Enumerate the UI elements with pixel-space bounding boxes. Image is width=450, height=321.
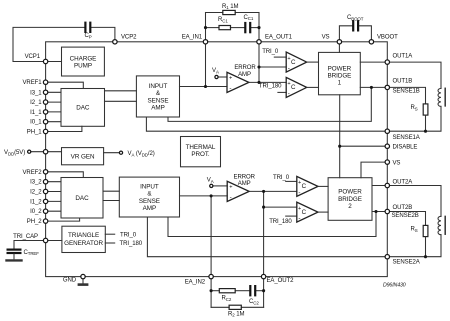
- svg-text:POWER: POWER: [338, 189, 362, 196]
- svg-text:C: C: [302, 209, 307, 216]
- svg-text:OUT1B: OUT1B: [393, 78, 413, 84]
- svg-text:VBOOT: VBOOT: [377, 35, 398, 41]
- wire EA_OUT1 vertical down: [258, 42, 260, 83]
- wire comp1a to power bridge 1: [307, 61, 319, 63]
- inductor load 2: [438, 216, 441, 234]
- svg-text:SENSE2B: SENSE2B: [392, 213, 419, 219]
- svg-text:OUT2B: OUT2B: [393, 205, 413, 211]
- svg-text:VS: VS: [322, 35, 330, 41]
- wire PH_1 to DAC1: [46, 126, 82, 131]
- svg-text:EA_IN2: EA_IN2: [185, 279, 206, 285]
- svg-text:PH_2: PH_2: [27, 219, 42, 225]
- svg-text:2: 2: [348, 203, 352, 210]
- wire TRI_180 stub comparator 1b: [278, 91, 286, 93]
- pin OUT1B: [385, 85, 389, 89]
- svg-text:ERROR: ERROR: [234, 65, 256, 71]
- wire Va1 to error amp: [217, 76, 228, 78]
- svg-text:VS: VS: [393, 160, 401, 166]
- power bridge 2 box: [328, 178, 372, 221]
- pin circles: [28, 40, 390, 279]
- svg-text:EA_OUT1: EA_OUT1: [265, 35, 293, 41]
- node OUT2B sense2b: [374, 210, 377, 213]
- pin I0_1: [43, 120, 47, 124]
- wire sense1b feedback: [168, 87, 371, 121]
- wire comp1b to power bridge 1: [307, 86, 319, 88]
- wire VR GEN to Va output: [104, 152, 120, 154]
- pin OUT2A: [385, 183, 389, 187]
- svg-text:R1 1M: R1 1M: [222, 4, 238, 10]
- wire Cp loop VCP1 to VCP2: [13, 27, 84, 61]
- wire TRI_0 stub comparator 2a: [286, 180, 297, 182]
- wire top level R1: [206, 12, 223, 14]
- charge pump box: [62, 47, 105, 76]
- pin TRI_CAP: [43, 238, 47, 242]
- svg-text:RS: RS: [411, 227, 418, 233]
- svg-text:BRIDGE: BRIDGE: [338, 196, 362, 203]
- svg-text:VCP2: VCP2: [121, 35, 137, 41]
- node EA_OUT2 error amp out: [262, 190, 265, 193]
- pin SENSE1A: [385, 129, 389, 133]
- svg-text:VDD(5V): VDD(5V): [4, 150, 25, 156]
- svg-text:-: -: [288, 65, 290, 72]
- comparator C 1b: [286, 77, 307, 97]
- svg-text:I1_2: I1_2: [30, 199, 42, 205]
- wire DISABLE: [340, 145, 388, 147]
- svg-text:+: +: [229, 76, 232, 82]
- svg-text:I2_2: I2_2: [30, 190, 42, 196]
- svg-text:INPUT: INPUT: [140, 184, 159, 191]
- node EA_OUT1 comp branch: [257, 65, 260, 68]
- wire OUT2B to Rs2: [387, 212, 425, 226]
- node EA_IN1 loop: [204, 26, 207, 29]
- wire OUT1B to Rs1: [387, 87, 425, 104]
- wire VS rail between bridges: [339, 95, 341, 178]
- wire EA_OUT2 branch to comparator 2b: [264, 206, 297, 208]
- svg-text:-: -: [298, 190, 300, 197]
- svg-text:-: -: [298, 215, 300, 222]
- comparator C 1a: [286, 52, 307, 72]
- node EA_OUT2 comp branch: [262, 206, 265, 209]
- svg-text:CTREF: CTREF: [24, 250, 40, 256]
- wire I0_1: [46, 121, 61, 123]
- pin OUT2B: [385, 209, 389, 213]
- resistor RC1: [219, 26, 231, 30]
- svg-text:VA: VA: [212, 68, 219, 74]
- wire EA_OUT2 external vertical: [263, 277, 265, 308]
- svg-text:-: -: [230, 194, 232, 201]
- inductor load 1: [438, 88, 441, 106]
- wire EA_IN2 vertical: [210, 196, 212, 277]
- svg-text:I2_1: I2_1: [30, 100, 42, 106]
- svg-text:GND: GND: [63, 277, 77, 283]
- triangle generator box: [62, 226, 105, 252]
- wire bottom level R2: [211, 306, 229, 308]
- svg-text:EA_OUT2: EA_OUT2: [267, 278, 295, 284]
- pin I2_1: [43, 100, 47, 104]
- svg-text:VREF2: VREF2: [23, 170, 43, 176]
- pin PH_1: [43, 129, 47, 133]
- wire power bridge2 to OUT2A: [372, 185, 387, 187]
- wire Rs2 bottom: [425, 237, 427, 257]
- svg-text:CBOOT: CBOOT: [347, 15, 364, 21]
- wire VREF2 to DAC2: [46, 172, 84, 178]
- capacitor CBOOT: [352, 21, 354, 30]
- node EA_OUT1 loop: [257, 26, 260, 29]
- svg-text:SENSE: SENSE: [139, 198, 160, 205]
- svg-text:SENSE2A: SENSE2A: [393, 259, 421, 265]
- wire DAC1 to input sense amp 1 (lower): [105, 100, 137, 102]
- node Rs1 bottom: [424, 130, 427, 133]
- wire error amp2 output: [249, 190, 297, 192]
- svg-text:INPUT: INPUT: [149, 83, 168, 90]
- resistor RC2: [219, 289, 235, 293]
- wire sense2a feedback: [147, 217, 387, 257]
- svg-text:PH_1: PH_1: [27, 130, 42, 136]
- svg-text:+: +: [229, 185, 232, 191]
- pin EA_OUT1: [257, 40, 261, 44]
- input sense amp 2 box: [119, 177, 179, 217]
- svg-text:R2 1M: R2 1M: [228, 311, 244, 317]
- svg-text:-: -: [288, 91, 290, 98]
- pin VCP1: [43, 59, 47, 63]
- wire TRI_180 stub out: [105, 242, 114, 244]
- pin I0_2: [43, 209, 47, 213]
- wire TRI_0 stub comparator 1a: [274, 56, 286, 58]
- wire VS pin to power bridge 1: [338, 42, 340, 53]
- svg-text:TRI_180: TRI_180: [269, 219, 292, 225]
- chip outline: [46, 42, 388, 277]
- wire VCP1 to charge pump: [46, 61, 62, 63]
- wire load2 bottom: [387, 235, 441, 257]
- wire I0_2: [46, 210, 61, 212]
- pin I1_1: [43, 110, 47, 114]
- wire DAC2 to input sense amp 2 (lower): [103, 200, 119, 202]
- svg-text:AMP: AMP: [238, 72, 251, 78]
- node EA_IN2 error amp: [210, 194, 213, 197]
- svg-text:TRI_0: TRI_0: [120, 232, 137, 238]
- svg-text:C: C: [291, 59, 296, 66]
- node EA_OUT1 error amp out: [257, 81, 260, 84]
- svg-text:DISABLE: DISABLE: [393, 144, 418, 150]
- pin EA_OUT2: [261, 274, 265, 278]
- wire Va2 to error amp 2: [213, 185, 227, 187]
- resistor Rs1: [423, 104, 428, 115]
- wire PH_2 to DAC2: [46, 218, 80, 221]
- terminal Va2: [210, 184, 213, 187]
- svg-text:DAC: DAC: [76, 105, 90, 112]
- wire VS2 pin to power bridge 2: [361, 162, 387, 178]
- svg-text:CC2: CC2: [249, 299, 259, 305]
- capacitor Ctref: [8, 249, 21, 251]
- wire mid level RC1 CC1: [206, 27, 220, 29]
- terminal Va1: [215, 75, 218, 78]
- svg-text:I3_2: I3_2: [30, 180, 42, 186]
- wire TRI_CAP to triangle generator: [46, 240, 62, 242]
- svg-text:&: &: [147, 191, 152, 198]
- svg-text:SENSE1B: SENSE1B: [393, 89, 420, 95]
- wire EA_OUT1 branch to comparator 1a: [259, 66, 286, 68]
- svg-text:CC1: CC1: [244, 15, 254, 21]
- svg-text:BRIDGE: BRIDGE: [327, 73, 351, 80]
- capacitor Cp: [84, 23, 86, 32]
- wire EA_IN1 vertical down: [205, 42, 207, 87]
- op-amp error amp 2: [227, 181, 249, 201]
- wire I3_2: [46, 181, 61, 183]
- pin I2_2: [43, 189, 47, 193]
- wire mid level RC2 CC2: [211, 290, 219, 292]
- pin I3_1: [43, 90, 47, 94]
- wire power bridge2 to OUT2B: [372, 211, 387, 213]
- thermal prot box: [181, 137, 221, 167]
- input sense amp 1 box: [136, 76, 179, 117]
- node DISABLE rail: [338, 145, 341, 148]
- svg-text:PUMP: PUMP: [74, 63, 92, 70]
- pin PH_2: [43, 219, 47, 223]
- wire I2_1: [46, 101, 61, 103]
- wire VDD to VR GEN: [29, 151, 61, 153]
- svg-text:SENSE1A: SENSE1A: [393, 135, 421, 141]
- node EA_OUT2 loop: [262, 289, 265, 292]
- svg-text:OUT1A: OUT1A: [393, 54, 414, 60]
- svg-text:OUT2A: OUT2A: [393, 180, 414, 186]
- wire TRI_0 stub out: [105, 233, 114, 235]
- wire I2_2: [46, 191, 61, 193]
- svg-text:RC1: RC1: [218, 17, 228, 23]
- VR GEN box: [62, 148, 104, 165]
- svg-text:I1_1: I1_1: [30, 110, 42, 116]
- svg-text:VREF1: VREF1: [23, 80, 43, 86]
- svg-text:&: &: [156, 90, 161, 97]
- comparator and op-amp signs: [229, 56, 307, 222]
- svg-text:VR GEN: VR GEN: [71, 153, 95, 160]
- comparator C 2a: [297, 176, 318, 196]
- node EA_IN1 error amp: [204, 85, 207, 88]
- wire TRI_CAP external to Ctref: [14, 241, 46, 249]
- wire DAC2 to input sense amp 2 (upper): [103, 190, 119, 192]
- pin VS right: [385, 160, 389, 164]
- svg-text:RS: RS: [411, 105, 418, 111]
- wire Rs1 bottom: [425, 115, 427, 131]
- wire EA_IN2 external vertical: [210, 277, 212, 308]
- svg-text:SENSE: SENSE: [147, 97, 168, 104]
- node OUT1B sense1b: [370, 86, 373, 89]
- svg-text:GENERATOR: GENERATOR: [64, 240, 103, 247]
- svg-text:I3_1: I3_1: [30, 90, 42, 96]
- svg-text:CP: CP: [85, 33, 92, 39]
- svg-text:VCP1: VCP1: [25, 54, 41, 60]
- terminal Va out: [119, 151, 122, 154]
- pin EA_IN1: [203, 40, 207, 44]
- svg-text:THERMAL: THERMAL: [186, 144, 216, 151]
- resistor Rs2: [423, 225, 428, 236]
- box texts: [64, 56, 362, 247]
- svg-text:TRI_0: TRI_0: [262, 49, 279, 55]
- svg-text:TRI_CAP: TRI_CAP: [13, 234, 38, 240]
- wire input sense amp1 to error amp 1: [180, 86, 228, 88]
- wire error amp1 output: [249, 81, 286, 83]
- ground bar Ctref: [7, 259, 22, 261]
- wire EA_IN1 vertical to compensation loop: [205, 13, 207, 42]
- pin DISABLE: [385, 144, 389, 148]
- pin I3_2: [43, 180, 47, 184]
- wire EA_OUT2 vertical: [263, 191, 265, 276]
- DAC1 box: [61, 89, 105, 127]
- capacitor CC1: [244, 23, 246, 32]
- pin VBOOT: [369, 40, 373, 44]
- wire OUT1A to load1: [387, 62, 441, 88]
- svg-text:C: C: [302, 183, 307, 190]
- pin OUT1A: [385, 60, 389, 64]
- wire I3_1: [46, 91, 61, 93]
- ground GND pin: [82, 277, 84, 284]
- wire DAC1 to input sense amp 1 (upper): [105, 90, 137, 92]
- DAC2 box: [61, 178, 103, 219]
- wire I1_1: [46, 111, 61, 113]
- svg-text:1: 1: [338, 80, 342, 87]
- pin VDD: [43, 150, 47, 154]
- node Rs2 bottom: [424, 255, 427, 258]
- pin VREF1: [43, 80, 47, 84]
- wire power bridge1 to OUT1B: [360, 86, 387, 88]
- resistor R1 1M: [223, 10, 235, 14]
- wire I1_2: [46, 200, 61, 202]
- wire comp2a to power bridge 2: [318, 185, 328, 187]
- svg-text:AMP: AMP: [151, 105, 165, 112]
- svg-text:TRI_0: TRI_0: [273, 175, 290, 181]
- node EA_IN2 loop: [210, 289, 213, 292]
- svg-text:I0_2: I0_2: [30, 209, 42, 215]
- power bridge 1 box: [319, 52, 361, 94]
- svg-text:TRIANGLE: TRIANGLE: [68, 232, 99, 239]
- svg-text:C: C: [291, 84, 296, 91]
- svg-text:RC2: RC2: [222, 296, 232, 302]
- wire CBOOT loop VS to VBOOT: [339, 26, 352, 42]
- wire comp2b to power bridge 2: [318, 211, 328, 213]
- wire EA_OUT1 vertical to compensation loop: [258, 13, 260, 42]
- wire TRI_180 stub comparator 2b: [286, 215, 297, 217]
- pin GND: [81, 274, 85, 278]
- resistor R2 1M: [229, 305, 241, 309]
- wire VREF1 to DAC1: [46, 82, 84, 88]
- svg-text:DAC: DAC: [75, 195, 89, 202]
- pin SENSE2A: [385, 255, 389, 259]
- svg-text:ERROR: ERROR: [234, 174, 256, 180]
- wire load1 bottom: [387, 106, 441, 131]
- svg-text:EA_IN1: EA_IN1: [182, 35, 203, 41]
- svg-text:D96IN430: D96IN430: [383, 283, 406, 289]
- svg-text:VA: VA: [207, 177, 214, 183]
- comparator C 2b: [297, 202, 318, 222]
- svg-text:AMP: AMP: [143, 205, 157, 212]
- pin EA_IN2: [209, 274, 213, 278]
- wire input sense amp2 to error amp 2: [180, 195, 228, 197]
- capacitor CC2: [249, 286, 251, 295]
- svg-text:I0_1: I0_1: [30, 120, 42, 126]
- svg-text:VA (VDD/2): VA (VDD/2): [128, 151, 155, 157]
- pin VREF2: [43, 170, 47, 174]
- pin I1_2: [43, 199, 47, 203]
- op-amp error amp 1: [227, 72, 249, 92]
- svg-text:TRI_180: TRI_180: [259, 84, 282, 90]
- wire power bridge1 to OUT1A: [360, 61, 387, 63]
- terminal VDD: [28, 150, 31, 153]
- pin VCP2: [113, 40, 117, 44]
- svg-text:POWER: POWER: [328, 65, 352, 72]
- wire OUT2A to load2: [387, 186, 441, 217]
- svg-text:TRI_180: TRI_180: [120, 241, 143, 247]
- svg-text:AMP: AMP: [238, 181, 251, 187]
- svg-text:PROT.: PROT.: [191, 151, 210, 158]
- wire sense2b feedback: [168, 212, 376, 237]
- wire sense1a feedback: [146, 117, 387, 131]
- pin VS top: [337, 40, 341, 44]
- svg-text:-: -: [229, 85, 231, 92]
